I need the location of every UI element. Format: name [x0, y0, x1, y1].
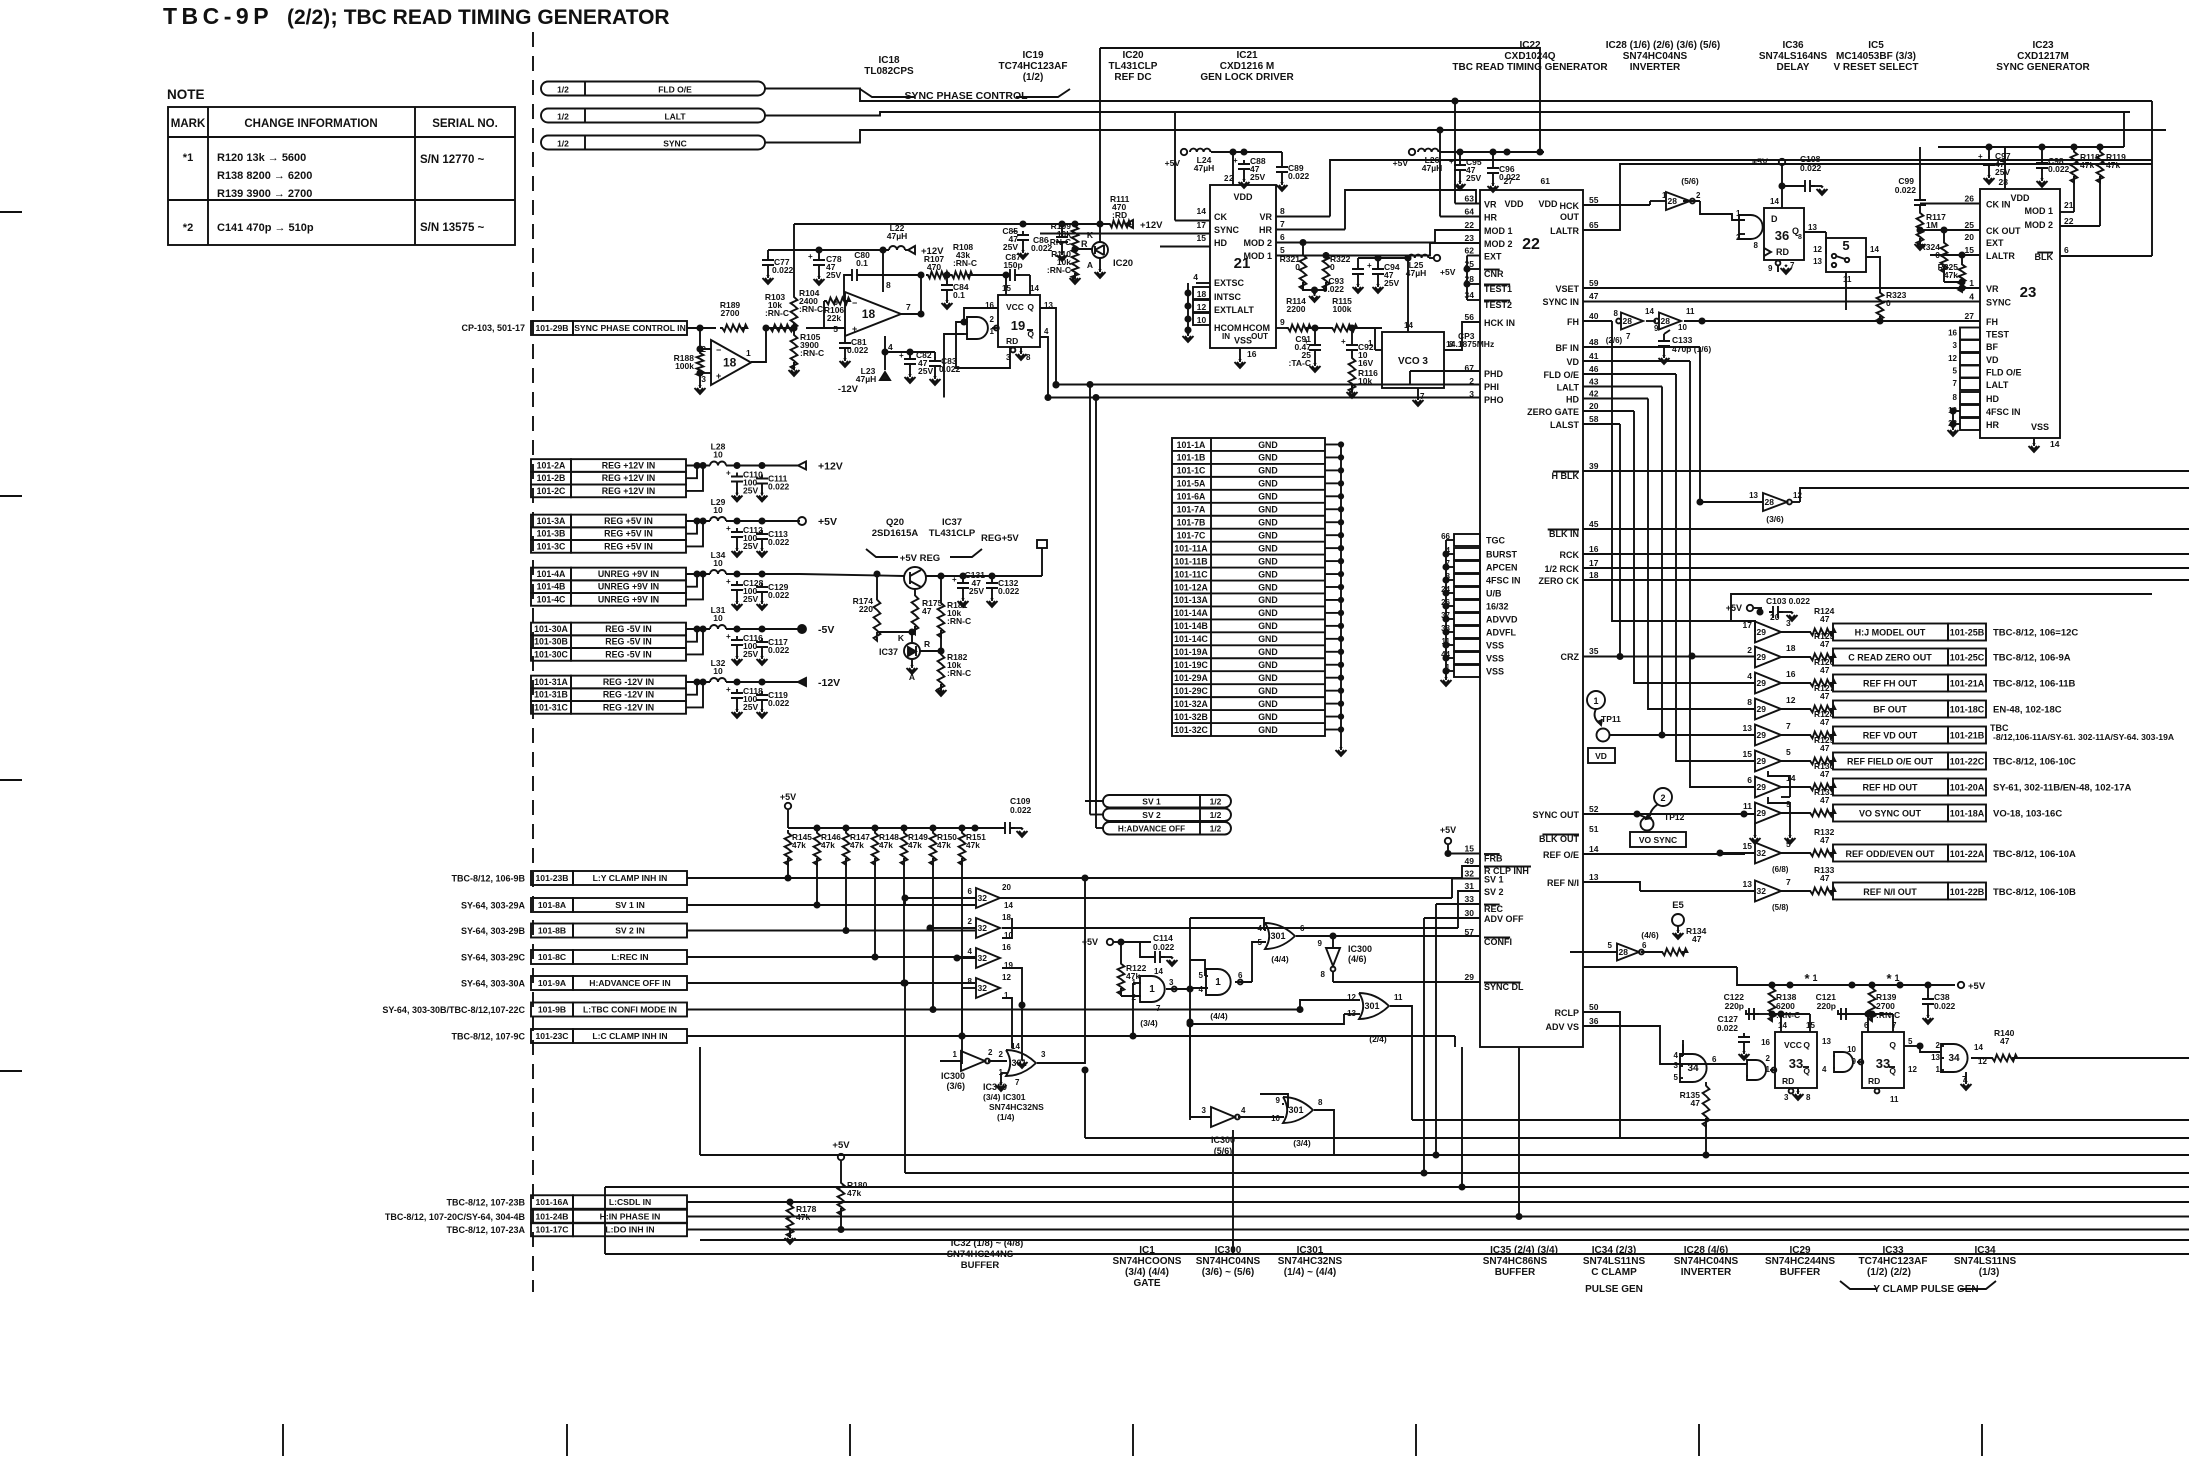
svg-text:VSS: VSS [2031, 422, 2049, 432]
svg-text:10: 10 [713, 666, 723, 676]
svg-text:VR: VR [1484, 200, 1497, 210]
svg-text:3: 3 [1786, 618, 1791, 628]
svg-text:R: R [924, 639, 930, 649]
svg-text:+5V: +5V [1165, 158, 1181, 168]
resistor R174 220 [876, 574, 878, 596]
svg-text:MARK: MARK [171, 118, 206, 130]
wire UNREG9V to regulator [800, 574, 904, 576]
svg-text:101-8B: 101-8B [538, 926, 566, 936]
resistor R321 0 [1300, 252, 1307, 289]
buffer IC35 6/8 REF ODD/EVEN [1755, 843, 1781, 864]
svg-text:CK OUT: CK OUT [1986, 226, 2021, 236]
resistor R150 47k [930, 830, 937, 865]
svg-text:TEST1: TEST1 [1484, 284, 1512, 294]
wire riser x700 bus B [699, 1047, 701, 1155]
svg-text:22: 22 [1522, 236, 1540, 253]
svg-text:REG -5V IN: REG -5V IN [605, 624, 651, 634]
svg-text:101-30B: 101-30B [534, 637, 568, 647]
wire OR1/4 out [1037, 878, 1085, 1063]
svg-text:GND: GND [1258, 621, 1278, 631]
svg-text:PHI: PHI [1484, 382, 1499, 392]
inductor L25 47uH +5V [1358, 257, 1408, 259]
svg-text:BF: BF [1986, 342, 1998, 352]
svg-text:4: 4 [1822, 1065, 1827, 1074]
svg-text:14.1875MHz: 14.1875MHz [1446, 339, 1494, 349]
buffer 29 cross-links [1768, 771, 1790, 797]
svg-text:+5V: +5V [818, 516, 837, 528]
svg-text:15: 15 [1197, 233, 1207, 243]
svg-text:301: 301 [1364, 1001, 1379, 1011]
svg-text:Q: Q [1803, 1040, 1810, 1050]
resistor R109 10k RN-C [1072, 224, 1079, 253]
svg-text:0.022: 0.022 [1895, 185, 1917, 195]
svg-text:1: 1 [953, 1050, 958, 1059]
capacitor C128 100 25V [731, 581, 743, 595]
svg-text:14: 14 [1154, 967, 1163, 976]
svg-text:SYNC GENERATOR: SYNC GENERATOR [1996, 62, 2090, 73]
svg-text:TL431CLP: TL431CLP [1109, 61, 1158, 72]
svg-text:25V: 25V [826, 270, 841, 280]
svg-text:GND: GND [1258, 517, 1278, 527]
svg-text:GND: GND [1258, 647, 1278, 657]
svg-text:52: 52 [1589, 804, 1599, 814]
svg-text:16: 16 [1786, 669, 1796, 679]
VCO ground [1417, 396, 1419, 400]
svg-text:Q: Q [1027, 302, 1034, 312]
IC IC22 CXD1024Q TBC read timing generator [1480, 190, 1583, 1047]
svg-text:GND: GND [1258, 530, 1278, 540]
output box VO SYNC OUT 101-18A [1833, 805, 1948, 822]
svg-text:REG -12V IN: REG -12V IN [603, 677, 654, 687]
svg-text:Q20: Q20 [886, 517, 904, 528]
sync phase control brace [860, 89, 1070, 97]
svg-text:0: 0 [1295, 262, 1300, 272]
wire LALTR stub [1930, 254, 1980, 256]
svg-text:+5V: +5V [1393, 158, 1409, 168]
svg-text:101-29C: 101-29C [1174, 686, 1208, 696]
svg-text:47: 47 [922, 606, 932, 616]
svg-text:H BLK: H BLK [1552, 471, 1580, 481]
svg-text:SN74HC244NS: SN74HC244NS [1765, 1256, 1835, 1267]
connector 101-29B SYNC PHASE CONTROL IN [531, 321, 573, 335]
svg-text:4: 4 [1044, 327, 1049, 336]
svg-text:101-22B: 101-22B [1950, 887, 1985, 897]
svg-text:SN74LS11NS: SN74LS11NS [1954, 1256, 2017, 1267]
svg-text:47: 47 [1820, 795, 1830, 805]
svg-text:IC301: IC301 [1297, 1245, 1324, 1256]
svg-text:+5V REG: +5V REG [900, 553, 940, 564]
svg-text:3: 3 [1169, 978, 1174, 987]
svg-text:34: 34 [1948, 1053, 1960, 1064]
svg-text:14: 14 [1770, 197, 1779, 206]
svg-text:SN74HCOONS: SN74HCOONS [1113, 1256, 1182, 1267]
output box BF OUT 101-18C [1833, 701, 1948, 718]
svg-text:BF IN: BF IN [1556, 343, 1580, 353]
svg-text:LALST: LALST [1550, 420, 1579, 430]
svg-text:-12V: -12V [838, 384, 859, 395]
svg-text:EXT: EXT [1986, 238, 2004, 248]
svg-text:E5: E5 [1672, 900, 1684, 911]
svg-text:21: 21 [2064, 200, 2074, 210]
NAND IC1 4/4 [1206, 969, 1231, 995]
svg-text:47k: 47k [937, 840, 951, 850]
svg-text:101-7A: 101-7A [1177, 505, 1206, 515]
svg-text:GND: GND [1258, 569, 1278, 579]
svg-text:RD: RD [1006, 336, 1018, 346]
capacitor C89 0.022 [1276, 163, 1288, 177]
svg-text:3: 3 [1202, 1106, 1207, 1115]
svg-text:101-8A: 101-8A [538, 900, 566, 910]
inductor L34 10 [710, 570, 726, 574]
svg-text:TEST2: TEST2 [1484, 300, 1512, 310]
wire RCLP ADV VS [1583, 1012, 1620, 1138]
NAND gate FF19 input [967, 317, 988, 339]
svg-text:1: 1 [1894, 973, 1899, 983]
svg-text:REG -5V IN: REG -5V IN [605, 637, 651, 647]
svg-text:2: 2 [988, 1048, 993, 1057]
svg-text:4: 4 [1193, 272, 1198, 282]
svg-text:25V: 25V [1466, 173, 1481, 183]
svg-text:2: 2 [1936, 1041, 1941, 1050]
svg-text:EXT: EXT [1484, 252, 1502, 262]
output box REF FIELD O/E OUT 101-22C [1833, 753, 1948, 770]
wire OR3/4 out [1314, 1110, 1334, 1155]
svg-text:IC37: IC37 [942, 517, 962, 528]
svg-text:28: 28 [1661, 316, 1671, 326]
svg-text:(3/6): (3/6) [1766, 514, 1784, 524]
wire R150 to input row [932, 858, 934, 1010]
capacitor C93 0.022 [1352, 265, 1364, 279]
node base junction [877, 631, 915, 633]
svg-text:23: 23 [1465, 233, 1475, 243]
svg-text:IC5: IC5 [1868, 40, 1884, 51]
svg-text:61: 61 [1541, 176, 1551, 186]
resistor R145 47k [785, 830, 792, 865]
VCO3 block [1382, 332, 1444, 388]
svg-text:GND: GND [1258, 608, 1278, 618]
svg-text:11: 11 [1686, 307, 1695, 316]
wire riser x1233 [1232, 1130, 1234, 1254]
wire vo sync buffer [1583, 813, 1755, 815]
svg-text:220p: 220p [1725, 1001, 1744, 1011]
IC36 D flip-flop with AND gate [1739, 215, 1763, 239]
buffer IC35 pins 2/10 [976, 918, 1000, 938]
svg-text:(1/2) (2/2): (1/2) (2/2) [1867, 1267, 1911, 1278]
svg-text:101-22A: 101-22A [1950, 849, 1985, 859]
svg-text:1M: 1M [1926, 220, 1938, 230]
connector 101-3B REG +5V IN [531, 527, 571, 540]
svg-text:VDD: VDD [2010, 193, 2030, 203]
svg-text:GND: GND [1258, 582, 1278, 592]
svg-text:SN74HC04NS: SN74HC04NS [1623, 51, 1688, 62]
FF33b NAND input gate [1834, 1052, 1853, 1072]
svg-text:101-30A: 101-30A [534, 624, 568, 634]
capacitor C83 0.022 [929, 357, 941, 371]
svg-text:+: + [852, 324, 857, 334]
svg-text:25V: 25V [1250, 172, 1265, 182]
svg-text:0.022: 0.022 [1010, 805, 1032, 815]
svg-text:101-9B: 101-9B [538, 1005, 566, 1015]
svg-text:IC20: IC20 [1122, 50, 1144, 61]
svg-text:0.022: 0.022 [772, 265, 794, 275]
terminal +12V mid [1126, 220, 1133, 228]
wire CRZ [1583, 656, 1755, 658]
svg-text:13: 13 [1822, 1037, 1831, 1046]
svg-text:101-32B: 101-32B [1174, 712, 1208, 722]
svg-text:+: + [726, 577, 731, 586]
svg-text:REG +12V IN: REG +12V IN [602, 486, 656, 496]
IC23 top supply rail [1938, 146, 2124, 148]
svg-text:6: 6 [2064, 245, 2069, 255]
svg-text:13: 13 [1808, 223, 1817, 232]
svg-text:SV 1 IN: SV 1 IN [615, 900, 645, 910]
connector 101-30A REG -5V IN [531, 623, 571, 636]
svg-text:12: 12 [1002, 973, 1011, 982]
svg-text:VDD: VDD [1233, 192, 1253, 202]
resistor R181 10k RN-C [940, 576, 942, 600]
svg-text:47: 47 [1820, 691, 1830, 701]
svg-text:0.022: 0.022 [998, 586, 1020, 596]
svg-text:9: 9 [1280, 317, 1285, 327]
svg-text:LALTR: LALTR [1986, 251, 2015, 261]
wire OR outputs to right [1412, 1119, 2189, 1121]
svg-text:IC37: IC37 [879, 647, 898, 657]
svg-text:BUFFER: BUFFER [1780, 1267, 1821, 1278]
svg-text:LALT: LALT [1557, 383, 1580, 393]
wire opamp2 out [901, 313, 921, 315]
svg-text:GND: GND [1258, 673, 1278, 683]
svg-text:101-17C: 101-17C [536, 1225, 569, 1235]
svg-text:UNREG +9V IN: UNREG +9V IN [598, 594, 659, 604]
svg-text:VDD: VDD [1538, 199, 1558, 209]
resistor R118 47k [2071, 149, 2078, 183]
svg-text:5: 5 [1199, 971, 1204, 980]
svg-text:REG -5V IN: REG -5V IN [605, 649, 651, 659]
buffer IC35 5/8 REF N/I [1755, 881, 1781, 902]
wire riser from OR3/4 [1339, 1154, 1341, 1156]
svg-text:L:Y CLAMP INH IN: L:Y CLAMP INH IN [593, 873, 668, 883]
svg-text:11: 11 [1743, 801, 1752, 811]
svg-text:2: 2 [990, 315, 995, 324]
svg-text:8: 8 [1754, 241, 1759, 250]
svg-text:41: 41 [1589, 351, 1599, 361]
svg-text:17: 17 [1589, 558, 1599, 568]
svg-text:VSS: VSS [1486, 641, 1504, 651]
svg-text:CXD1024Q: CXD1024Q [1504, 51, 1555, 62]
svg-text:S/N 13575 ~: S/N 13575 ~ [420, 222, 485, 234]
svg-text:25V: 25V [743, 594, 758, 604]
wire REC pin riser [1436, 903, 1480, 905]
IC22 stub pin 4 BURST [1454, 548, 1480, 560]
svg-text:64: 64 [1465, 207, 1475, 217]
svg-text:101-19C: 101-19C [1174, 660, 1208, 670]
svg-text:101-7B: 101-7B [1177, 517, 1206, 527]
svg-text:TBC-9P: TBC-9P [163, 3, 273, 29]
svg-text:FH: FH [1567, 317, 1579, 327]
svg-text:REF N/I OUT: REF N/I OUT [1863, 887, 1917, 897]
wire sync phase control in run [687, 327, 700, 329]
svg-text:101-4A: 101-4A [537, 569, 566, 579]
svg-text:14: 14 [2050, 439, 2060, 449]
svg-text:15: 15 [1965, 245, 1975, 255]
svg-text:TBC-8/12, 107-23B: TBC-8/12, 107-23B [446, 1198, 525, 1208]
svg-text:REG -12V IN: REG -12V IN [603, 690, 654, 700]
wire CK OUT [1920, 229, 1980, 231]
svg-text:+: + [1978, 152, 1983, 161]
svg-text:25V: 25V [743, 649, 758, 659]
svg-text:0.022: 0.022 [1153, 942, 1175, 952]
wire vertical x1100 down to +12V node [1099, 48, 1101, 224]
svg-text:C141 470p → 510p: C141 470p → 510p [217, 222, 314, 234]
svg-text:REG +5V IN: REG +5V IN [604, 529, 653, 539]
svg-text:9: 9 [1318, 939, 1323, 948]
wire bus v2 [1619, 424, 1621, 657]
svg-text:+: + [726, 685, 731, 694]
svg-text:16: 16 [1948, 329, 1957, 338]
svg-text:1/2: 1/2 [1210, 797, 1222, 807]
wire join UNREG +9V IN [686, 574, 697, 587]
wire long bus B [700, 1154, 2189, 1156]
svg-text:PULSE GEN: PULSE GEN [1585, 1284, 1643, 1295]
resistor R175 47 [914, 589, 916, 592]
svg-text:VCC: VCC [1006, 302, 1024, 312]
OR IC301 1/4 [1006, 1050, 1036, 1076]
svg-text:+: + [726, 524, 731, 533]
svg-text:REF FIELD O/E OUT: REF FIELD O/E OUT [1847, 757, 1934, 767]
svg-text:63: 63 [1465, 194, 1475, 204]
svg-text:0.022: 0.022 [1499, 172, 1521, 182]
IC22 EXT CNR TEST stubs [1467, 255, 1480, 257]
svg-text:47k: 47k [2080, 160, 2094, 170]
svg-text:47: 47 [1820, 835, 1830, 845]
svg-text:0.022: 0.022 [2048, 164, 2070, 174]
output box REF HD OUT 101-20A [1833, 779, 1948, 796]
svg-text:0: 0 [1330, 262, 1335, 272]
svg-text:10: 10 [713, 558, 723, 568]
power terminal +5V [798, 517, 806, 525]
buffer IC29 128 driver [1755, 725, 1781, 746]
svg-text:101-30C: 101-30C [534, 649, 568, 659]
svg-text:101-24B: 101-24B [536, 1212, 569, 1222]
FF19 wiring [964, 308, 998, 322]
wire bus v3 [1634, 411, 1755, 683]
svg-text:32: 32 [978, 953, 988, 963]
svg-text:H:J MODEL OUT: H:J MODEL OUT [1855, 628, 1926, 638]
svg-text:1: 1 [1149, 984, 1155, 995]
svg-text:0.022: 0.022 [1800, 163, 1822, 173]
svg-text:18: 18 [862, 307, 876, 321]
wire long bus F [700, 1239, 2189, 1241]
svg-text:BF OUT: BF OUT [1873, 705, 1907, 715]
svg-text:47: 47 [1820, 639, 1830, 649]
svg-text:28: 28 [1619, 947, 1629, 957]
svg-text:TBC READ TIMING GENERATOR: TBC READ TIMING GENERATOR [1452, 62, 1608, 73]
svg-text:101-21B: 101-21B [1950, 731, 1985, 741]
svg-text:SY-64, 303-30A: SY-64, 303-30A [461, 979, 526, 989]
svg-text:HD: HD [1214, 238, 1227, 248]
svg-text:8: 8 [968, 977, 973, 986]
svg-text:0.022: 0.022 [768, 590, 790, 600]
svg-text:IC35 (2/4) (3/4): IC35 (2/4) (3/4) [1490, 1245, 1558, 1256]
svg-text:SY-64, 303-29A: SY-64, 303-29A [461, 901, 526, 911]
svg-text:13: 13 [1813, 257, 1822, 266]
svg-text:R120 13k → 5600: R120 13k → 5600 [217, 152, 306, 164]
svg-text:FRB: FRB [1484, 854, 1503, 864]
wire bus v1 [1612, 321, 1755, 632]
wire L:DO INH long [687, 1229, 2189, 1231]
svg-text:6: 6 [1747, 775, 1752, 785]
IC22 stub pin 38 ADVFL [1454, 626, 1480, 638]
svg-text:CP-103, 501-17: CP-103, 501-17 [461, 323, 525, 333]
wire to R103 node [766, 327, 794, 329]
svg-text:470p (1/6): 470p (1/6) [1672, 344, 1711, 354]
svg-text:20: 20 [1002, 883, 1011, 892]
svg-text:TC74HC123AF: TC74HC123AF [999, 61, 1068, 72]
svg-text:4: 4 [888, 342, 893, 352]
svg-text:150p: 150p [1003, 260, 1022, 270]
wire bus v6 [1676, 374, 1755, 761]
svg-text:SV 1: SV 1 [1142, 797, 1161, 807]
svg-text:10: 10 [1197, 315, 1207, 325]
svg-text:BLK IN: BLK IN [1549, 529, 1579, 539]
svg-text:HD: HD [1566, 395, 1579, 405]
svg-text::RN-C: :RN-C [1047, 265, 1071, 275]
svg-text:47: 47 [1820, 873, 1830, 883]
resistor R116 10k [1349, 355, 1356, 392]
svg-text:R: R [1081, 239, 1088, 249]
svg-text:8: 8 [1806, 1093, 1811, 1102]
svg-text:8: 8 [1321, 970, 1326, 979]
svg-text:HCK: HCK [1560, 201, 1580, 211]
svg-text:0: 0 [1886, 298, 1891, 308]
svg-text:27: 27 [1965, 311, 1975, 321]
svg-text:31: 31 [1465, 881, 1475, 891]
buffer IC29 129 driver [1755, 751, 1781, 772]
svg-text:ADV VS: ADV VS [1545, 1022, 1579, 1032]
IC23 stub pin 12 VD [1960, 353, 1980, 365]
FF IC33 second [1862, 1032, 1904, 1088]
NAND IC1 3/4 [1140, 976, 1165, 1002]
svg-text:+: + [716, 371, 721, 381]
svg-text:(1/3): (1/3) [1979, 1267, 2000, 1278]
wire join REG -5V IN [686, 629, 697, 642]
resistor R114 2200 [1286, 325, 1311, 332]
svg-text:28: 28 [1623, 316, 1633, 326]
svg-text:26: 26 [1965, 194, 1975, 204]
svg-text:FLD O/E: FLD O/E [658, 85, 692, 95]
output buffer frame wire [1731, 594, 2152, 621]
svg-text:4: 4 [1241, 1106, 1246, 1115]
svg-text:TBC-8/12, 106-9B: TBC-8/12, 106-9B [451, 874, 525, 884]
svg-text:18: 18 [1589, 570, 1599, 580]
svg-text:SN74HC32NS: SN74HC32NS [989, 1102, 1044, 1112]
svg-text:GND: GND [1258, 595, 1278, 605]
svg-text:47k: 47k [1944, 270, 1958, 280]
svg-text:2: 2 [1747, 645, 1752, 655]
svg-text:2200: 2200 [1287, 304, 1306, 314]
svg-text:REF N/I: REF N/I [1547, 878, 1579, 888]
svg-text:SV 2 IN: SV 2 IN [615, 926, 645, 936]
capacitor C129 0.022 [756, 583, 768, 597]
svg-text:12: 12 [1793, 491, 1802, 500]
svg-text:20: 20 [1589, 401, 1599, 411]
wire REF O/E to buffer 32 [1583, 853, 1720, 855]
svg-text:8: 8 [1747, 697, 1752, 707]
svg-text:CHANGE INFORMATION: CHANGE INFORMATION [244, 118, 377, 130]
wire long bus C [905, 1172, 2189, 1174]
svg-text:(6/8): (6/8) [1772, 865, 1789, 874]
pill SYNC [541, 136, 765, 150]
